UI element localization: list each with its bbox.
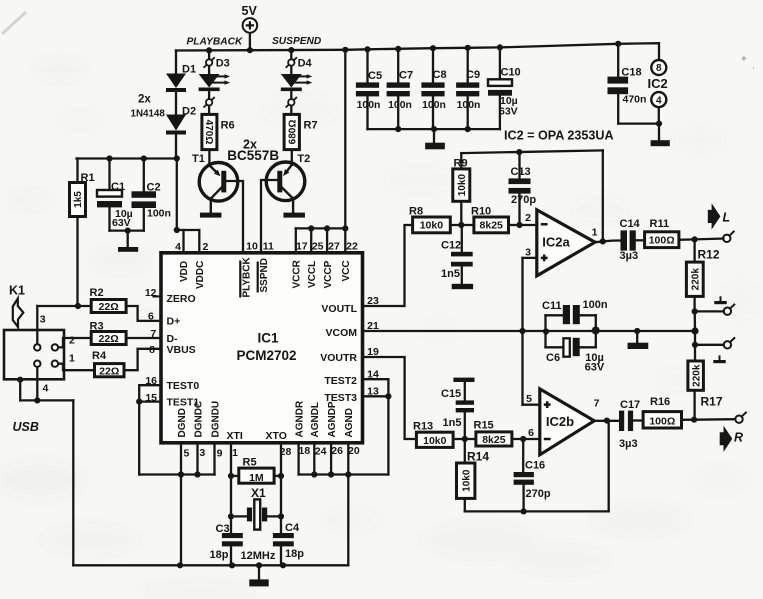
svg-text:27: 27 bbox=[328, 240, 340, 252]
svg-text:18p: 18p bbox=[210, 549, 229, 561]
svg-text:21: 21 bbox=[367, 320, 379, 332]
svg-text:63V: 63V bbox=[499, 105, 518, 117]
svg-text:R2: R2 bbox=[90, 287, 104, 299]
svg-text:R3: R3 bbox=[90, 320, 104, 332]
svg-text:10k0: 10k0 bbox=[461, 469, 472, 492]
svg-text:R16: R16 bbox=[650, 396, 670, 408]
svg-text:USB: USB bbox=[13, 420, 39, 434]
svg-text:3µ3: 3µ3 bbox=[619, 438, 638, 450]
svg-text:C13: C13 bbox=[511, 166, 531, 178]
svg-text:100n: 100n bbox=[422, 100, 446, 111]
svg-text:5: 5 bbox=[183, 448, 189, 460]
svg-text:PCM2702: PCM2702 bbox=[236, 348, 296, 363]
svg-text:17: 17 bbox=[296, 240, 308, 252]
svg-text:1n5: 1n5 bbox=[441, 268, 460, 280]
svg-text:C3: C3 bbox=[216, 523, 230, 535]
svg-text:10k0: 10k0 bbox=[457, 174, 468, 197]
svg-text:470n: 470n bbox=[623, 94, 647, 106]
svg-text:C1: C1 bbox=[111, 181, 125, 193]
svg-text:C6: C6 bbox=[546, 352, 560, 364]
svg-text:23: 23 bbox=[367, 295, 379, 307]
svg-text:R5: R5 bbox=[243, 456, 257, 468]
svg-text:R13: R13 bbox=[413, 420, 433, 432]
svg-text:12MHz: 12MHz bbox=[241, 550, 276, 562]
svg-text:1: 1 bbox=[232, 447, 238, 459]
svg-text:7: 7 bbox=[594, 397, 600, 409]
svg-text:26: 26 bbox=[331, 445, 343, 457]
svg-text:IC2: IC2 bbox=[648, 76, 668, 91]
svg-text:28: 28 bbox=[280, 446, 292, 458]
svg-text:XTO: XTO bbox=[266, 430, 287, 442]
svg-text:IC2b: IC2b bbox=[546, 414, 574, 429]
svg-text:1: 1 bbox=[592, 226, 598, 238]
svg-text:DGND: DGND bbox=[177, 408, 188, 437]
svg-text:1: 1 bbox=[69, 353, 75, 365]
svg-text:1N4148: 1N4148 bbox=[131, 109, 166, 120]
svg-text:14: 14 bbox=[367, 368, 379, 380]
svg-text:1M: 1M bbox=[249, 472, 264, 484]
svg-text:16: 16 bbox=[145, 375, 157, 387]
svg-text:VCOM: VCOM bbox=[326, 327, 358, 339]
svg-text:AGNDP: AGNDP bbox=[327, 401, 338, 437]
svg-text:VDD: VDD bbox=[179, 261, 190, 282]
svg-text:18: 18 bbox=[299, 445, 311, 457]
svg-text:C14: C14 bbox=[620, 218, 641, 230]
svg-text:VCC: VCC bbox=[341, 260, 352, 281]
svg-text:22Ω: 22Ω bbox=[99, 365, 119, 377]
svg-text:15: 15 bbox=[145, 392, 157, 404]
svg-text:+: + bbox=[741, 54, 747, 65]
svg-text:C2: C2 bbox=[147, 182, 161, 194]
svg-text:8: 8 bbox=[656, 63, 662, 74]
svg-text:VDDC: VDDC bbox=[195, 261, 206, 289]
svg-text:DGNDU: DGNDU bbox=[210, 401, 221, 438]
svg-text:10k0: 10k0 bbox=[423, 435, 447, 447]
svg-text:AGNDL: AGNDL bbox=[310, 402, 321, 438]
svg-text:C4: C4 bbox=[285, 522, 300, 534]
svg-text:100Ω: 100Ω bbox=[649, 235, 675, 247]
svg-text:18p: 18p bbox=[285, 548, 304, 560]
svg-text:8k25: 8k25 bbox=[482, 434, 506, 446]
svg-text:270p: 270p bbox=[511, 194, 536, 206]
svg-text:10k0: 10k0 bbox=[420, 220, 444, 232]
svg-text:VCCP: VCCP bbox=[323, 260, 334, 288]
svg-text:C18: C18 bbox=[621, 66, 641, 78]
svg-text:7: 7 bbox=[150, 328, 156, 340]
svg-text:1n5: 1n5 bbox=[443, 417, 462, 429]
svg-text:IC2 = OPA 2353UA: IC2 = OPA 2353UA bbox=[504, 129, 614, 143]
svg-text:2x: 2x bbox=[138, 94, 151, 106]
svg-text:R11: R11 bbox=[650, 218, 670, 230]
svg-text:100n: 100n bbox=[457, 100, 481, 111]
svg-text:3: 3 bbox=[525, 246, 531, 258]
svg-text:270p: 270p bbox=[526, 488, 551, 500]
svg-text:R9: R9 bbox=[454, 157, 468, 169]
svg-text:R1: R1 bbox=[81, 172, 95, 184]
svg-text:C5: C5 bbox=[368, 70, 382, 82]
svg-text:100n: 100n bbox=[388, 100, 412, 111]
svg-text:C17: C17 bbox=[620, 399, 640, 411]
svg-text:C8: C8 bbox=[433, 69, 447, 81]
svg-text:R8: R8 bbox=[409, 206, 423, 218]
svg-text:D4: D4 bbox=[298, 58, 313, 70]
svg-text:1k5: 1k5 bbox=[73, 191, 84, 208]
svg-text:10: 10 bbox=[246, 240, 258, 252]
svg-text:6: 6 bbox=[148, 310, 154, 322]
svg-text:C9: C9 bbox=[466, 69, 480, 81]
svg-text:T2: T2 bbox=[297, 153, 310, 165]
svg-text:220k: 220k bbox=[691, 364, 702, 387]
svg-text:XTI: XTI bbox=[227, 430, 243, 442]
svg-text:ZERO: ZERO bbox=[167, 293, 196, 305]
svg-text:20: 20 bbox=[348, 445, 360, 457]
svg-text:,: , bbox=[752, 60, 755, 71]
svg-text:R7: R7 bbox=[304, 120, 318, 132]
svg-text:BC557B: BC557B bbox=[227, 148, 279, 163]
svg-text:470Ω: 470Ω bbox=[203, 120, 214, 145]
svg-text:11: 11 bbox=[263, 240, 274, 252]
svg-text:VBUS: VBUS bbox=[167, 344, 196, 356]
svg-text:R: R bbox=[734, 431, 743, 445]
svg-text:C10: C10 bbox=[501, 66, 521, 78]
svg-text:C11: C11 bbox=[542, 300, 562, 312]
svg-text:R6: R6 bbox=[221, 120, 235, 132]
svg-text:D1: D1 bbox=[182, 64, 196, 76]
svg-text:L: L bbox=[723, 211, 731, 225]
svg-text:4: 4 bbox=[175, 241, 181, 253]
svg-text:VOUTR: VOUTR bbox=[320, 352, 357, 364]
svg-text:R10: R10 bbox=[471, 206, 491, 218]
svg-text:4: 4 bbox=[656, 95, 662, 106]
svg-text:2: 2 bbox=[525, 212, 531, 224]
svg-text:SUSPEND: SUSPEND bbox=[272, 36, 322, 47]
svg-text:3: 3 bbox=[40, 313, 46, 325]
svg-text:5V: 5V bbox=[242, 4, 258, 18]
svg-text:100n: 100n bbox=[583, 299, 608, 311]
svg-text:22Ω: 22Ω bbox=[99, 301, 119, 313]
svg-text:63V: 63V bbox=[585, 361, 605, 373]
svg-text:8: 8 bbox=[149, 344, 155, 356]
svg-text:C16: C16 bbox=[525, 460, 545, 472]
svg-text:TEST0: TEST0 bbox=[167, 380, 200, 392]
svg-text:4: 4 bbox=[43, 382, 49, 394]
svg-text:220k: 220k bbox=[690, 268, 701, 291]
svg-text:22: 22 bbox=[346, 240, 358, 252]
svg-text:R17: R17 bbox=[701, 394, 723, 408]
svg-text:R14: R14 bbox=[467, 449, 489, 463]
svg-text:8k25: 8k25 bbox=[480, 220, 504, 232]
svg-text:X1: X1 bbox=[251, 486, 266, 500]
svg-text:12: 12 bbox=[145, 287, 157, 299]
svg-text:DGNDC: DGNDC bbox=[193, 401, 204, 438]
svg-text:AGND: AGND bbox=[344, 408, 355, 437]
svg-text:SSPND: SSPND bbox=[259, 258, 270, 292]
svg-text:C15: C15 bbox=[441, 388, 461, 400]
svg-text:IC2a: IC2a bbox=[542, 234, 570, 249]
svg-text:22Ω: 22Ω bbox=[99, 333, 119, 345]
svg-text:2: 2 bbox=[69, 334, 75, 346]
svg-text:T1: T1 bbox=[192, 153, 205, 165]
svg-text:TEST2: TEST2 bbox=[324, 375, 357, 387]
svg-text:6: 6 bbox=[528, 427, 534, 439]
svg-text:3: 3 bbox=[199, 447, 205, 459]
svg-text:100Ω: 100Ω bbox=[649, 416, 675, 428]
svg-text:13: 13 bbox=[367, 385, 379, 397]
svg-text:C7: C7 bbox=[399, 70, 413, 82]
svg-text:PLYBCK: PLYBCK bbox=[242, 257, 253, 298]
svg-text:25: 25 bbox=[312, 240, 324, 252]
svg-text:24: 24 bbox=[315, 446, 327, 458]
svg-text:9: 9 bbox=[217, 448, 223, 460]
svg-text:PLAYBACK: PLAYBACK bbox=[187, 36, 243, 47]
svg-text:R15: R15 bbox=[474, 420, 494, 432]
svg-text:680Ω: 680Ω bbox=[287, 120, 298, 145]
svg-text:R4: R4 bbox=[92, 350, 107, 362]
svg-text:VCCR: VCCR bbox=[292, 259, 303, 288]
svg-text:100n: 100n bbox=[147, 208, 171, 220]
svg-text:R12: R12 bbox=[698, 248, 720, 262]
svg-text:C12: C12 bbox=[441, 239, 461, 251]
svg-text:5: 5 bbox=[526, 393, 532, 405]
svg-text:VCCL: VCCL bbox=[307, 261, 318, 288]
svg-text:D+: D+ bbox=[167, 315, 181, 327]
svg-text:2: 2 bbox=[203, 241, 209, 253]
svg-text:VOUTL: VOUTL bbox=[321, 303, 357, 315]
svg-text:D2: D2 bbox=[182, 105, 196, 117]
svg-text:100n: 100n bbox=[357, 100, 381, 111]
svg-text:K1: K1 bbox=[9, 284, 25, 298]
svg-text:D3: D3 bbox=[216, 58, 230, 70]
svg-text:3µ3: 3µ3 bbox=[620, 250, 639, 262]
svg-text:IC1: IC1 bbox=[257, 331, 279, 346]
svg-text:19: 19 bbox=[367, 346, 379, 358]
svg-text:63V: 63V bbox=[112, 217, 131, 229]
svg-text:AGNDR: AGNDR bbox=[295, 400, 306, 437]
